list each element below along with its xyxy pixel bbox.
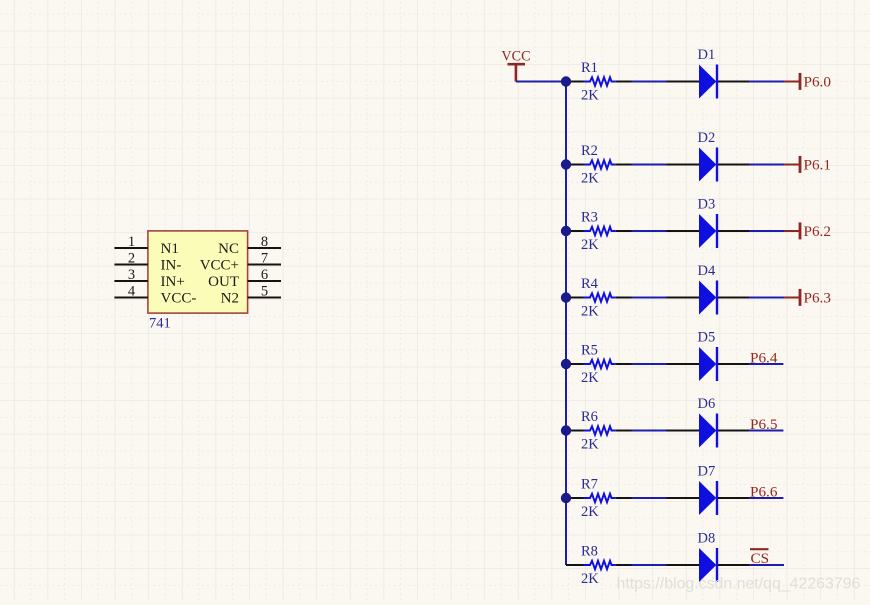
pin 7 (VCC+) [200, 250, 281, 273]
wire R1 to D1 [632, 81, 667, 83]
svg-text:R3: R3 [581, 210, 598, 226]
svg-text:2K: 2K [581, 171, 599, 187]
svg-text:P6.6: P6.6 [750, 484, 778, 501]
resistor R1 value 2K [566, 60, 632, 104]
wire D1 to port P6.0 [749, 81, 784, 83]
wire D4 to port P6.3 [749, 297, 784, 299]
junction dot row 3 [561, 226, 571, 236]
svg-text:8: 8 [261, 234, 268, 250]
pin 2 (IN-) [114, 250, 181, 273]
svg-text:IN+: IN+ [161, 274, 185, 290]
svg-text:VCC-: VCC- [161, 290, 197, 306]
svg-text:2K: 2K [581, 88, 599, 104]
wire R6 to D6 [632, 430, 667, 432]
svg-text:D6: D6 [698, 396, 716, 412]
svg-text:P6.4: P6.4 [750, 350, 778, 367]
svg-text:N2: N2 [221, 290, 239, 306]
svg-text:P6.5: P6.5 [750, 416, 777, 433]
svg-text:VCC: VCC [501, 49, 530, 65]
svg-text:CS: CS [751, 550, 770, 567]
svg-text:D3: D3 [698, 197, 716, 213]
wire D3 to port P6.2 [749, 230, 784, 232]
svg-text:R7: R7 [581, 477, 598, 493]
port P6.2 [784, 222, 831, 240]
svg-text:2K: 2K [581, 571, 599, 587]
svg-text:VCC+: VCC+ [200, 257, 239, 273]
pin 8 (NC) [218, 234, 281, 257]
wire D7 to end [749, 497, 783, 499]
svg-text:P6.3: P6.3 [804, 289, 831, 306]
svg-text:R4: R4 [581, 276, 599, 292]
wire D6 to end [749, 430, 783, 432]
svg-text:2K: 2K [581, 237, 599, 253]
resistor R3 value 2K [566, 210, 632, 254]
junction dot row 7 [561, 493, 571, 503]
junction dot row 1 [561, 76, 571, 86]
wire R2 to D2 [632, 164, 667, 166]
svg-text:R6: R6 [581, 409, 598, 425]
svg-text:6: 6 [261, 267, 268, 283]
svg-text:D2: D2 [698, 130, 716, 146]
svg-text:D4: D4 [698, 263, 716, 279]
svg-text:4: 4 [128, 283, 136, 299]
pin 3 (IN+) [114, 267, 184, 290]
diode D5 [667, 330, 750, 381]
svg-text:P6.2: P6.2 [804, 223, 831, 240]
diode D1 [667, 47, 750, 98]
svg-text:https://blog.csdn.net/qq_42263: https://blog.csdn.net/qq_42263796 [617, 576, 861, 593]
svg-text:P6.1: P6.1 [804, 156, 831, 173]
wire R4 to D4 [632, 297, 667, 299]
resistor R7 value 2K [566, 477, 632, 521]
wire R8 to D8 [632, 564, 667, 566]
svg-text:N1: N1 [161, 241, 179, 257]
diode D2 [667, 130, 750, 181]
svg-text:3: 3 [128, 267, 135, 283]
junction dot row 2 [561, 159, 571, 169]
op-amp U1 body (741) [148, 231, 248, 313]
svg-text:1: 1 [128, 234, 135, 250]
pin 5 (N2) [221, 283, 281, 306]
resistor R2 value 2K [566, 143, 632, 187]
diode D4 [667, 263, 750, 314]
svg-text:P6.0: P6.0 [804, 73, 832, 90]
svg-text:741: 741 [149, 315, 171, 331]
wire D8 to end [749, 564, 784, 566]
svg-text:5: 5 [261, 283, 268, 299]
resistor R8 value 2K [566, 544, 632, 588]
port P6.0 [784, 73, 831, 91]
pin 6 (OUT) [208, 267, 281, 290]
diode D3 [667, 197, 750, 248]
svg-text:2K: 2K [581, 504, 599, 520]
svg-text:R8: R8 [581, 544, 598, 560]
svg-text:D8: D8 [698, 531, 716, 547]
resistor R5 value 2K [566, 343, 632, 387]
pin 4 (VCC-) [114, 283, 196, 306]
svg-text:2: 2 [128, 250, 135, 266]
vertical bus wire [565, 82, 567, 566]
svg-text:2K: 2K [581, 370, 599, 386]
wire R7 to D7 [632, 497, 667, 499]
net label CS (active low, overline) [750, 549, 769, 567]
wire R5 to D5 [632, 363, 667, 365]
port P6.3 [784, 289, 831, 307]
diode D7 [667, 464, 750, 515]
svg-text:D7: D7 [698, 464, 716, 480]
resistor R4 value 2K [566, 276, 632, 320]
junction dot row 6 [561, 425, 571, 435]
diode D6 [667, 396, 750, 447]
svg-text:R1: R1 [581, 60, 598, 76]
svg-text:NC: NC [218, 241, 239, 257]
wire D5 to end [749, 363, 783, 365]
svg-text:R5: R5 [581, 343, 598, 359]
wire D2 to port P6.1 [749, 164, 784, 166]
junction dot row 5 [561, 359, 571, 369]
wire R3 to D3 [632, 230, 667, 232]
diode D8 [667, 531, 750, 582]
power port VCC [501, 49, 530, 82]
svg-text:2K: 2K [581, 437, 599, 453]
junction dot row 4 [561, 292, 571, 302]
svg-text:R2: R2 [581, 143, 598, 159]
port P6.1 [784, 156, 831, 174]
svg-text:7: 7 [261, 250, 268, 266]
pin 1 (N1) [114, 234, 178, 257]
resistor R6 value 2K [566, 409, 632, 453]
svg-text:D5: D5 [698, 330, 716, 346]
svg-text:2K: 2K [581, 304, 599, 320]
svg-text:OUT: OUT [208, 274, 239, 290]
wire VCC to bus node [516, 81, 566, 83]
svg-text:IN-: IN- [161, 257, 182, 273]
svg-text:D1: D1 [698, 47, 716, 63]
